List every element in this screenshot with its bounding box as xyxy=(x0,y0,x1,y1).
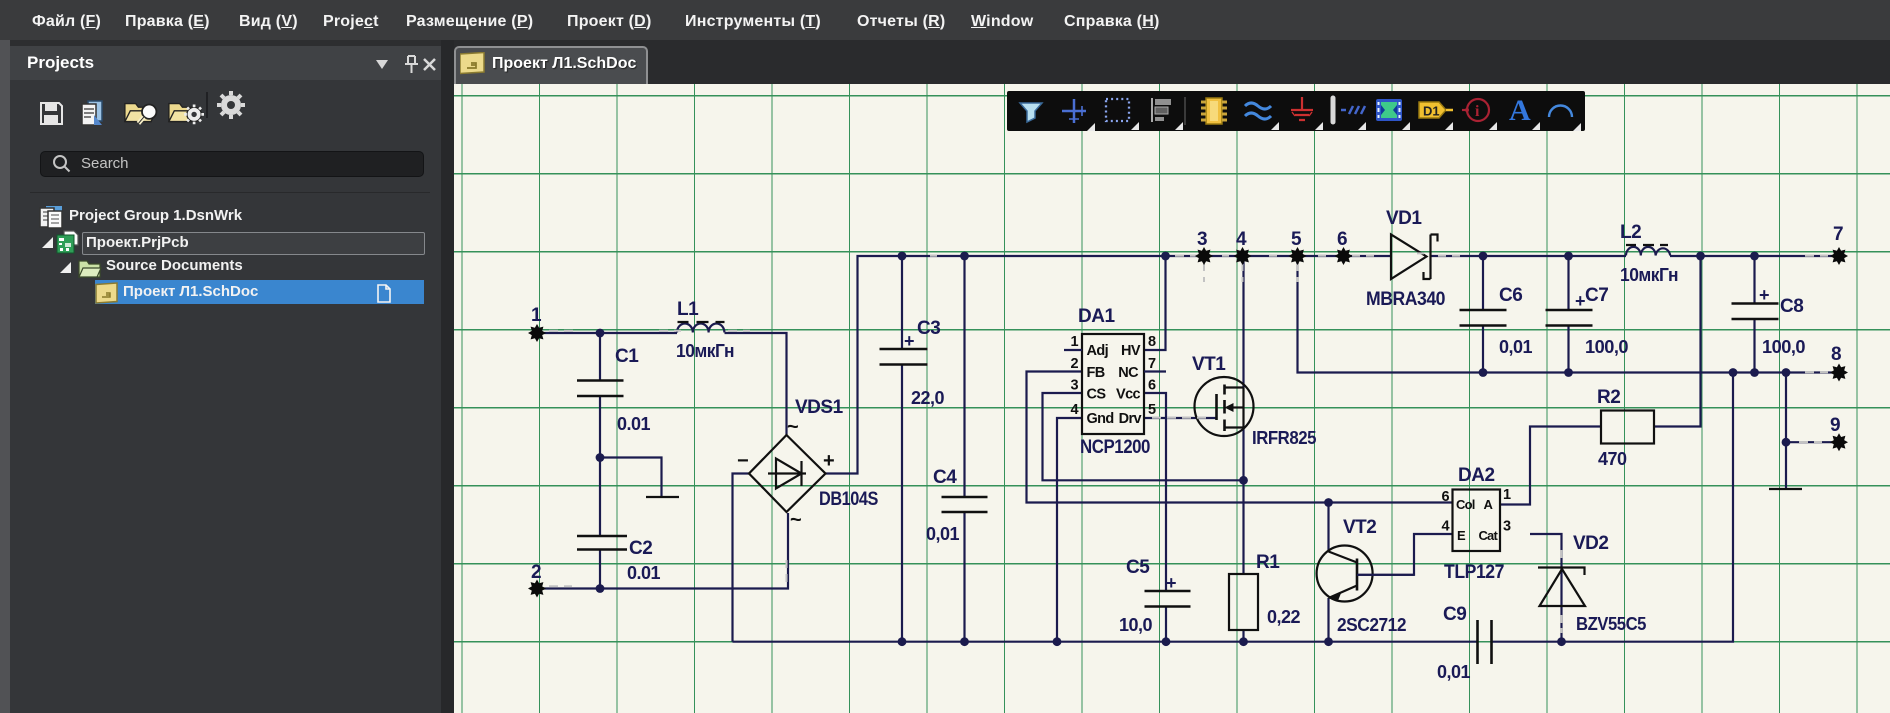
svg-text:C2: C2 xyxy=(629,538,652,559)
node/terminal 5 xyxy=(1289,229,1307,265)
place wire tool icon xyxy=(1245,103,1279,130)
svg-text:BZV55C5: BZV55C5 xyxy=(1576,614,1646,634)
svg-text:C8: C8 xyxy=(1780,296,1803,317)
wire: secondary common to output ground xyxy=(1785,373,1787,490)
zener diode VD2 BZV55C5 xyxy=(1538,533,1646,634)
wire: VT2 collector riser xyxy=(1327,503,1329,553)
svg-text:0,01: 0,01 xyxy=(1499,337,1533,357)
wire: DA1 pin 4 Gnd to 0V rail xyxy=(1057,418,1082,642)
wire: primary 0V bottom rail left of C9 xyxy=(733,641,1478,643)
svg-text:2SC2712: 2SC2712 xyxy=(1337,615,1406,635)
svg-text:L1: L1 xyxy=(677,299,699,320)
capacitor C7 (polarized) xyxy=(1546,285,1629,357)
transistor VT2 2SC2712 (NPN) xyxy=(1317,517,1414,635)
svg-text:−: − xyxy=(737,450,749,472)
svg-text:C4: C4 xyxy=(933,467,957,488)
wire: C1 top lead xyxy=(599,333,601,381)
capacitor C9 xyxy=(1437,604,1492,682)
svg-text:NCP1200: NCP1200 xyxy=(1080,437,1150,458)
node/terminal 6 xyxy=(1335,229,1353,265)
wire: DA1 pin 5 Drv to VT1 gate xyxy=(1144,417,1217,419)
wire: C5 bottom lead xyxy=(1165,607,1167,642)
svg-text:VT2: VT2 xyxy=(1343,517,1376,538)
ground (output common) xyxy=(1769,488,1802,490)
svg-text:4: 4 xyxy=(1071,402,1079,418)
junction: C4 at HV rail xyxy=(960,252,969,261)
doc icon at right of selected row xyxy=(378,285,390,302)
wire: HV rail to DA1 pin 8 xyxy=(1144,256,1166,350)
svg-text:100,0: 100,0 xyxy=(1585,337,1628,357)
wire: C6 bottom lead xyxy=(1482,326,1484,373)
junction: C6 at secondary common xyxy=(1479,368,1488,377)
svg-text:0.01: 0.01 xyxy=(627,563,661,583)
wire: VD2 anode to 0V rail xyxy=(1560,568,1562,642)
node/terminal 2 xyxy=(528,562,546,598)
wire: terminal 5 drop and secondary common rail to terminal 8 xyxy=(1298,256,1833,373)
expand triangle row2 xyxy=(42,237,53,248)
junction: R1 at 0V rail xyxy=(1239,637,1248,646)
folder icon xyxy=(79,261,101,277)
svg-text:VD2: VD2 xyxy=(1573,533,1608,554)
wire: terminal 9 tap xyxy=(1786,441,1832,443)
junction: current sense node xyxy=(1239,476,1248,485)
svg-text:4: 4 xyxy=(1442,519,1450,535)
svg-text:E: E xyxy=(1457,528,1466,543)
node/terminal 4 xyxy=(1234,229,1252,265)
wire: C6 top lead xyxy=(1482,256,1484,310)
node/terminal 7 xyxy=(1830,224,1848,265)
selection rectangle tool icon xyxy=(1106,99,1139,130)
svg-text:+: + xyxy=(823,450,835,472)
junction: terminal 9 tap xyxy=(1782,438,1791,447)
pcb project icon xyxy=(57,231,78,253)
junction: C3 at HV rail xyxy=(898,252,907,261)
junction: C3 at 0V rail xyxy=(898,637,907,646)
svg-text:2: 2 xyxy=(531,562,541,583)
wire: R2 to DA2 pin 1 anode xyxy=(1500,427,1601,505)
inductor L1 xyxy=(676,299,734,361)
svg-text:VD1: VD1 xyxy=(1386,208,1422,229)
svg-text:5: 5 xyxy=(1148,402,1156,418)
svg-text:HV: HV xyxy=(1121,343,1141,359)
svg-text:1: 1 xyxy=(1503,487,1511,503)
resistor R2 xyxy=(1597,387,1654,469)
svg-text:1: 1 xyxy=(531,305,542,326)
move/cross tool icon xyxy=(1062,99,1095,131)
junction: VT2 collector node xyxy=(1324,498,1333,507)
menu bar xyxy=(0,0,1890,40)
ground (primary filter) xyxy=(646,496,679,498)
grid snap marks near terminals xyxy=(549,253,1828,633)
junction: R2 riser at output rail xyxy=(1696,252,1705,261)
wire: C7 top lead xyxy=(1567,256,1569,310)
svg-text:R2: R2 xyxy=(1597,387,1620,408)
wire: L1 to bridge top (AC1 net) xyxy=(725,333,787,435)
svg-text:470: 470 xyxy=(1598,449,1627,469)
svg-text:i: i xyxy=(1475,103,1480,120)
gear icon xyxy=(217,91,245,119)
svg-text:4: 4 xyxy=(1236,229,1247,250)
wire: HV out junction down to R2 xyxy=(1654,256,1701,427)
wire: DA2 pin 4 emitter to VT2 base xyxy=(1357,534,1453,575)
schdoc icon xyxy=(96,283,117,303)
wire: C2 bottom lead xyxy=(599,550,601,589)
wire: DA1 pin 3 CS to sense node xyxy=(1043,393,1244,480)
svg-text:10мкГн: 10мкГн xyxy=(676,341,734,361)
svg-text:~: ~ xyxy=(787,416,799,438)
svg-text:5: 5 xyxy=(1291,229,1302,250)
svg-text:+: + xyxy=(1759,285,1769,305)
wire: DA1 pin 2 FB to DA2 pin 6 collector xyxy=(1027,372,1453,503)
junction: C4 at 0V rail xyxy=(960,637,969,646)
expand triangle row3 xyxy=(60,262,71,273)
wire: DA2 pin 3 cathode to VD2 xyxy=(1530,534,1562,568)
wire: C2 top lead xyxy=(599,458,601,537)
capacitor C2 xyxy=(577,536,661,583)
svg-text:10,0: 10,0 xyxy=(1119,615,1153,635)
wire: R1 bottom to 0V rail xyxy=(1242,630,1244,642)
svg-text:22,0: 22,0 xyxy=(911,388,945,408)
junction: DA1 Gnd at 0V rail xyxy=(1053,637,1062,646)
capacitor C8 (polarized) xyxy=(1732,285,1806,357)
wire: C4 top lead xyxy=(963,256,965,497)
svg-text:+: + xyxy=(1575,291,1585,311)
svg-text:7: 7 xyxy=(1148,356,1156,372)
svg-text:10мкГн: 10мкГн xyxy=(1620,265,1678,285)
wire: C3 top lead xyxy=(901,256,903,349)
svg-text:C1: C1 xyxy=(615,346,639,367)
place port tool icon xyxy=(1333,98,1366,130)
wire: terminal 2 to bridge bottom (AC2 net) xyxy=(542,513,788,589)
svg-text:C3: C3 xyxy=(917,318,940,339)
svg-text:VDS1: VDS1 xyxy=(795,397,844,418)
junction: DA1 pin8 riser at HV rail xyxy=(1161,252,1170,261)
place designator tool icon xyxy=(1419,102,1453,130)
op-amp/controller DA1 NCP1200 xyxy=(1064,306,1166,458)
svg-text:DA2: DA2 xyxy=(1458,465,1495,486)
node/terminal 3 xyxy=(1195,229,1213,265)
svg-text:TLP127: TLP127 xyxy=(1444,562,1504,583)
svg-text:3: 3 xyxy=(1071,378,1079,394)
svg-text:C6: C6 xyxy=(1499,285,1522,306)
separator xyxy=(206,92,208,118)
svg-text:8: 8 xyxy=(1831,344,1841,365)
transistor VT1 IRFR825 (N-MOSFET) xyxy=(1192,354,1316,448)
place sheet symbol tool icon xyxy=(1376,99,1410,130)
place parameter tool icon xyxy=(1462,99,1497,130)
wire: stub to ground symbol xyxy=(600,458,662,498)
wire: C8 top lead xyxy=(1753,256,1755,304)
wire: VD1 cathode to L2 xyxy=(1431,255,1627,257)
folder + gear xyxy=(169,104,204,125)
svg-text:C7: C7 xyxy=(1585,285,1608,306)
junction: C7 at output rail xyxy=(1564,252,1573,261)
capacitor C3 (polarized) xyxy=(880,318,945,408)
junction: C6 at output rail xyxy=(1479,252,1488,261)
junction: VT2 emitter at 0V rail xyxy=(1324,637,1333,646)
junction: C1/C2/ground node xyxy=(596,453,605,462)
wire: C4 bottom lead xyxy=(963,512,965,642)
place part tool icon xyxy=(1201,98,1227,124)
svg-text:0,01: 0,01 xyxy=(926,524,960,544)
bridge rectifier VDS1 xyxy=(737,397,878,531)
svg-text:0.01: 0.01 xyxy=(617,414,651,434)
wire: C3 bottom lead xyxy=(901,365,903,642)
svg-text:~: ~ xyxy=(790,509,802,531)
svg-text:Gnd: Gnd xyxy=(1087,411,1114,427)
svg-text:2: 2 xyxy=(1071,356,1079,372)
junction: C8 at output rail xyxy=(1750,252,1759,261)
wire: C8 bottom lead xyxy=(1753,319,1755,373)
inductor L2 xyxy=(1620,222,1678,285)
junction: C2 bottom node xyxy=(596,584,605,593)
svg-text:IRFR825: IRFR825 xyxy=(1252,428,1316,448)
wire: terminal 4 drop to VT1 drain xyxy=(1242,256,1244,388)
svg-text:A: A xyxy=(1509,94,1531,127)
junction: C5 at 0V rail xyxy=(1162,637,1171,646)
svg-text:6: 6 xyxy=(1337,229,1347,250)
svg-text:MBRA340: MBRA340 xyxy=(1366,289,1445,310)
folder + magnifier xyxy=(125,104,156,124)
svg-text:C5: C5 xyxy=(1126,557,1150,578)
diode VD1 MBRA340 (Schottky) xyxy=(1366,208,1445,310)
svg-text:L2: L2 xyxy=(1620,222,1641,243)
wire: C7 bottom lead xyxy=(1567,326,1569,373)
svg-text:VT1: VT1 xyxy=(1192,354,1226,375)
capacitor C5 (polarized) xyxy=(1119,557,1191,635)
svg-text:3: 3 xyxy=(1503,519,1511,535)
capacitor C1 xyxy=(577,346,651,434)
svg-text:A: A xyxy=(1484,497,1494,512)
svg-text:DB104S: DB104S xyxy=(819,489,878,510)
svg-text:D1: D1 xyxy=(1423,104,1440,119)
svg-text:0,01: 0,01 xyxy=(1437,662,1471,682)
node/terminal 8 xyxy=(1830,344,1848,382)
svg-text:6: 6 xyxy=(1148,378,1156,394)
wire: bridge plus output up to HV rail xyxy=(826,256,1391,474)
wire: DA1 pin 6 Vcc down to C5 xyxy=(1144,393,1166,591)
svg-text:C9: C9 xyxy=(1443,604,1466,625)
svg-text:DA1: DA1 xyxy=(1078,306,1115,327)
node/terminal 9 xyxy=(1830,415,1848,451)
svg-text:8: 8 xyxy=(1148,334,1156,350)
wire: input terminal 1 to L1 xyxy=(542,332,677,334)
svg-text:CS: CS xyxy=(1087,387,1107,403)
svg-text:Vcc: Vcc xyxy=(1116,387,1141,403)
svg-text:Drv: Drv xyxy=(1119,411,1142,427)
junction: C8 at secondary common xyxy=(1750,368,1759,377)
optocoupler DA2 TLP127 xyxy=(1442,465,1511,583)
wire: L2 to terminal 7 xyxy=(1670,255,1832,257)
align tool icon xyxy=(1152,98,1183,130)
svg-text:Cat: Cat xyxy=(1478,528,1498,543)
junction: bottom rail riser at secondary common xyxy=(1729,368,1738,377)
svg-text:NC: NC xyxy=(1118,365,1139,381)
junction: ground drop at secondary common xyxy=(1782,368,1791,377)
place GND power port tool icon xyxy=(1291,97,1323,130)
svg-text:Adj: Adj xyxy=(1087,343,1109,359)
svg-text:Col: Col xyxy=(1456,497,1475,512)
junction: C7 at secondary common xyxy=(1564,368,1573,377)
save icon xyxy=(41,103,62,124)
svg-text:6: 6 xyxy=(1442,489,1450,505)
project group icon xyxy=(40,206,62,228)
wire: sense node to R1 top xyxy=(1242,480,1244,574)
place arc tool icon xyxy=(1549,106,1581,132)
filter tool icon xyxy=(1020,103,1042,122)
wire: VT1 source to sense node xyxy=(1242,428,1244,481)
svg-text:R1: R1 xyxy=(1256,552,1280,573)
svg-text:1: 1 xyxy=(1071,334,1079,350)
svg-text:0,22: 0,22 xyxy=(1267,607,1301,627)
place text tool icon xyxy=(1509,94,1540,130)
wire: C1 bottom to mid junction xyxy=(599,396,601,458)
junction: C1 top node xyxy=(596,329,605,338)
svg-text:+: + xyxy=(1166,573,1176,593)
svg-text:9: 9 xyxy=(1830,415,1840,436)
svg-text:+: + xyxy=(904,331,914,351)
svg-text:3: 3 xyxy=(1197,229,1207,250)
capacitor C6 xyxy=(1460,285,1533,357)
capacitor C4 xyxy=(926,467,988,544)
wire: bridge minus output down to 0V rail xyxy=(733,474,750,642)
svg-text:FB: FB xyxy=(1087,365,1105,381)
resistor R1 xyxy=(1229,552,1301,630)
junction: VD2 anode at 0V rail xyxy=(1557,637,1566,646)
paste/copy icon xyxy=(82,101,102,125)
svg-text:7: 7 xyxy=(1833,224,1843,245)
svg-text:100,0: 100,0 xyxy=(1762,337,1805,357)
wire: bottom rail right of C9 up to secondary common xyxy=(1492,373,1733,642)
wire: VT2 emitter to 0V rail xyxy=(1327,598,1329,642)
node/terminal 1 xyxy=(528,305,546,342)
